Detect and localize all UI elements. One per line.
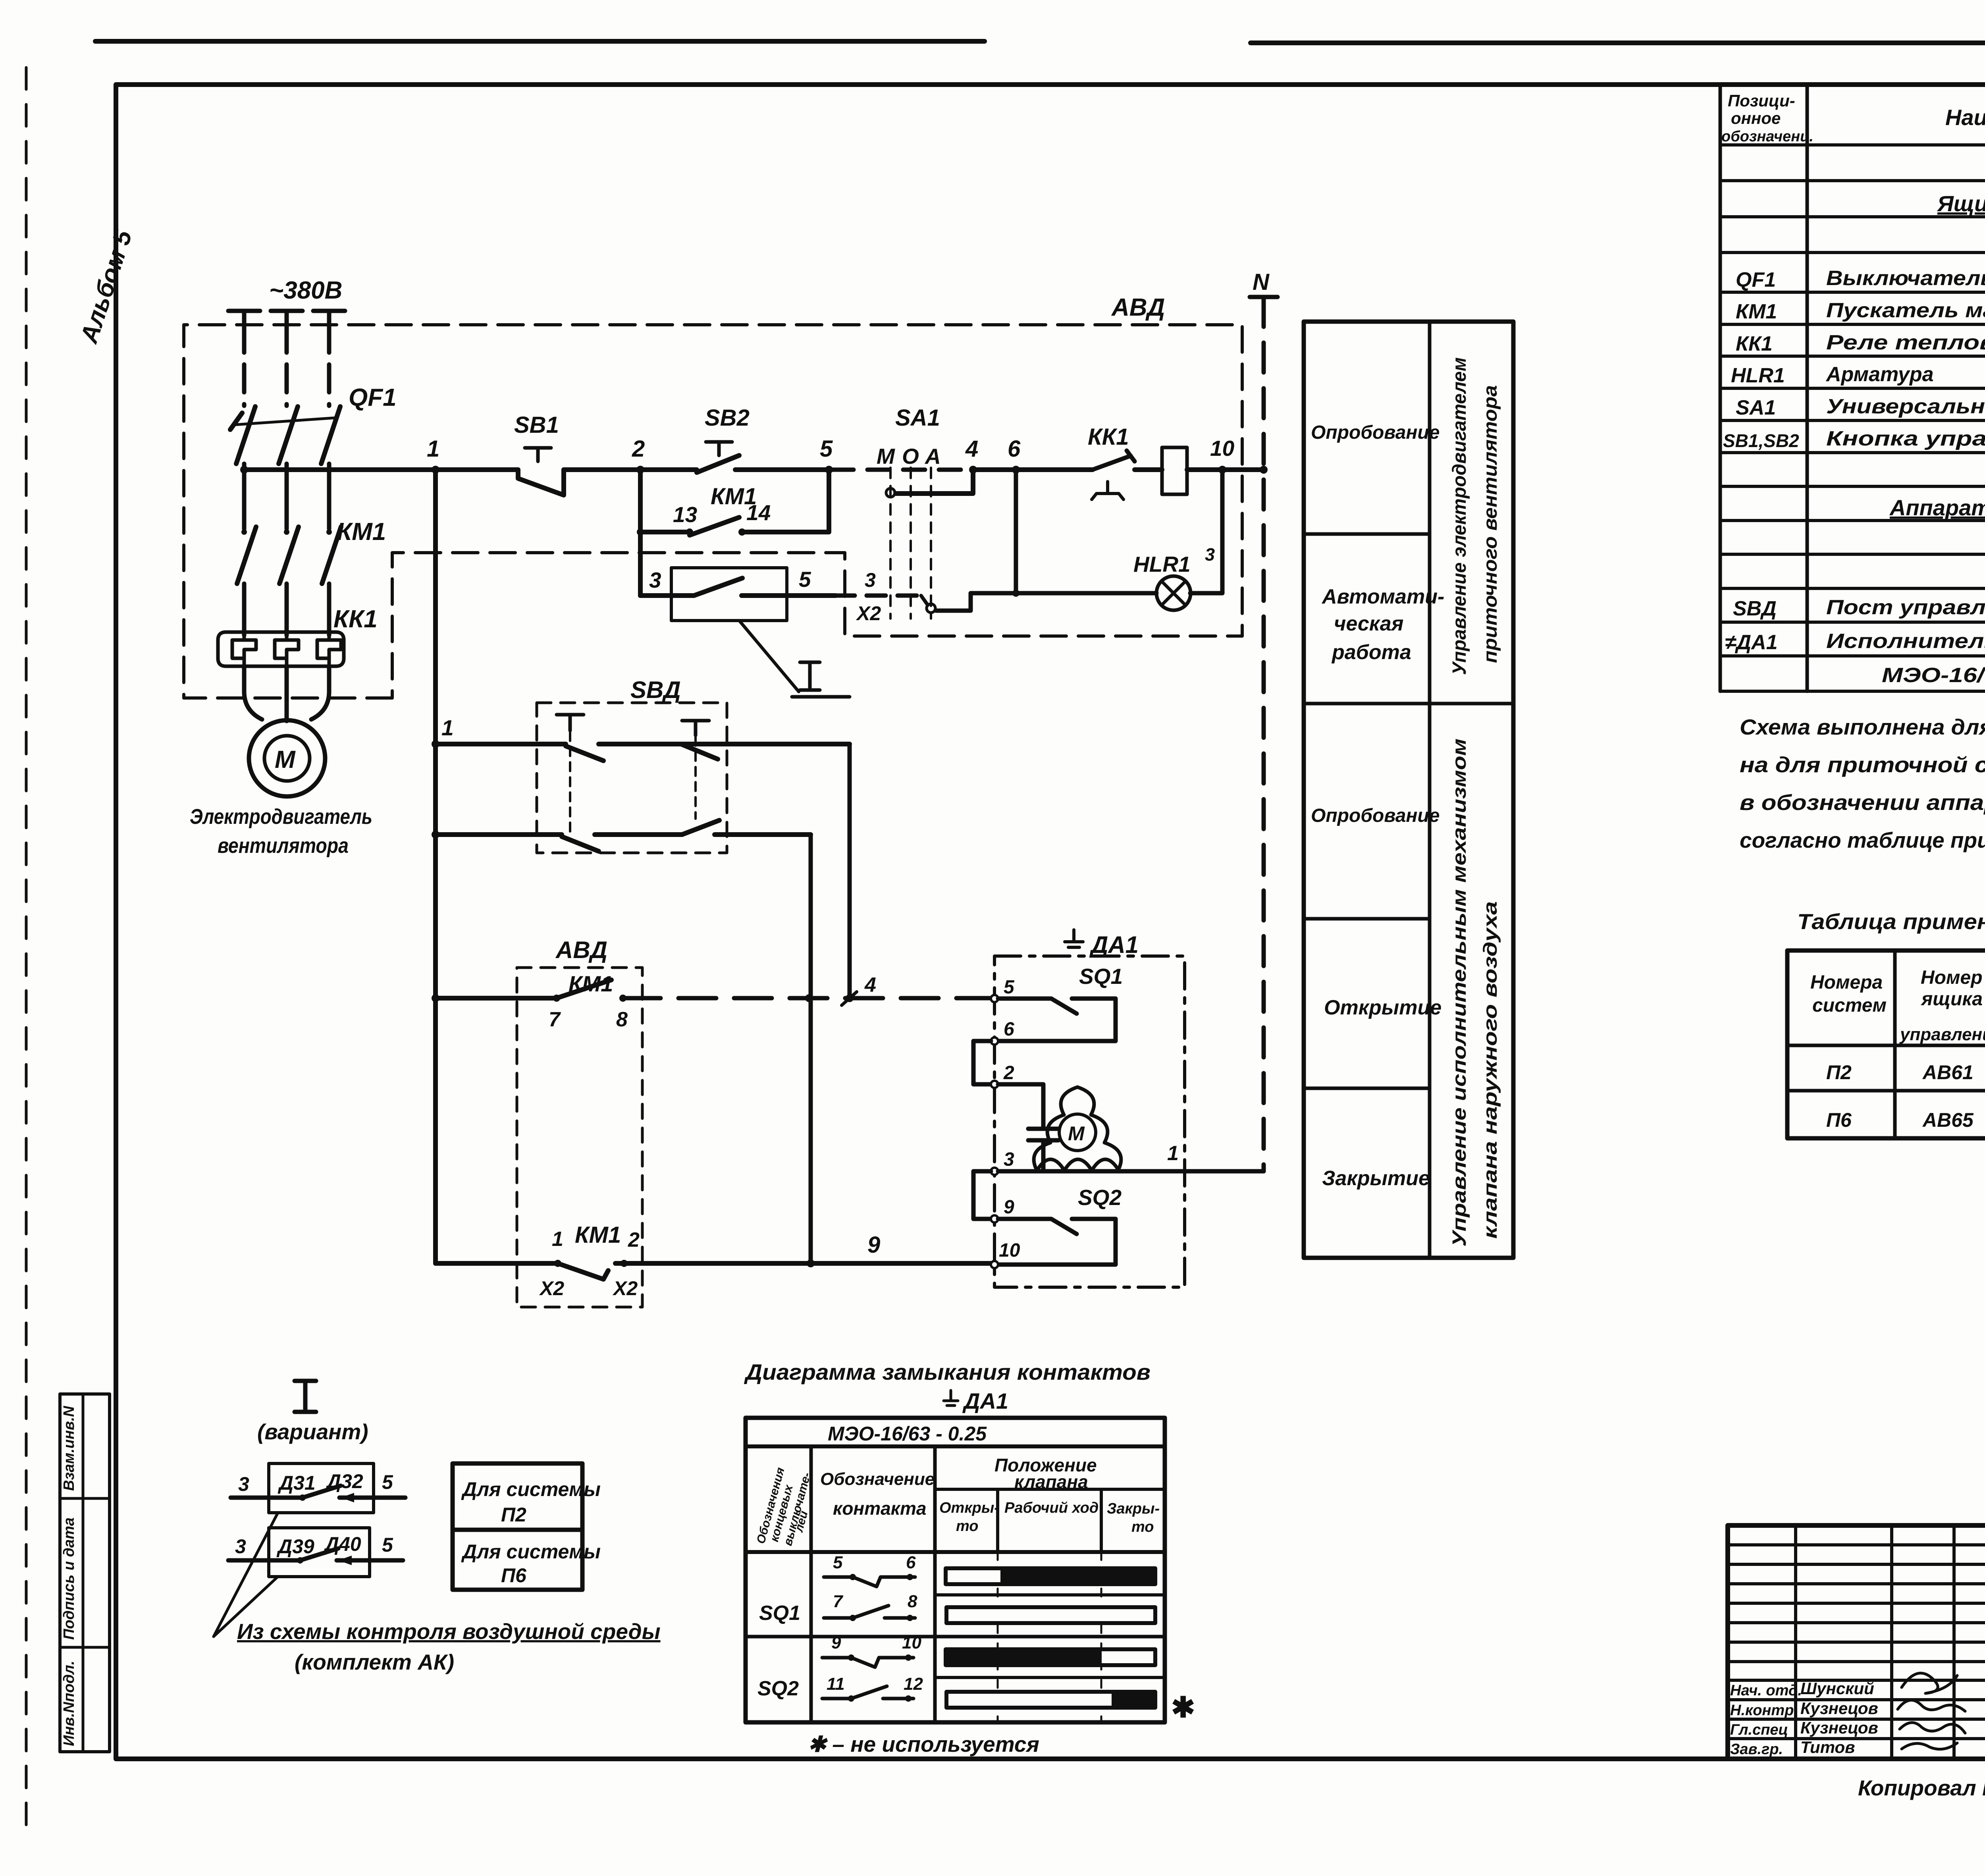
svg-text:Арматура: Арматура [1825,363,1934,386]
cabinet АВД boundary [184,325,1242,698]
svg-text:Х2: Х2 [539,1277,564,1300]
svg-text:(комплект АК): (комплект АК) [295,1650,454,1674]
svg-text:2: 2 [632,436,645,462]
svg-text:Для системы: Для системы [461,1541,601,1563]
svg-text:5: 5 [799,567,811,592]
svg-text:✱ – не используется: ✱ – не используется [808,1732,1039,1756]
svg-text:Гл.спец: Гл.спец [1730,1722,1788,1738]
svg-text:в обозначении аппаратов и п: в обозначении аппаратов и приборов в мар… [1740,790,1985,815]
svg-text:SВ1: SВ1 [514,412,559,438]
wire phase A [242,325,247,406]
svg-text:8: 8 [908,1592,917,1611]
svg-text:Диаграмма замыкания контакт: Диаграмма замыкания контактов [744,1359,1151,1384]
control tap junction [240,466,248,474]
svg-text:Кузнецов: Кузнецов [1800,1718,1878,1737]
sub-row separators [935,1593,1165,1596]
svg-text:согласно таблице применяемос: согласно таблице применяемости. [1740,828,1985,852]
node 4 [969,466,977,474]
wire control bus [244,467,518,472]
svg-text:1: 1 [552,1228,563,1251]
contactor KM1 main contacts [237,527,341,584]
parts table grid [1720,85,1985,691]
svg-text:то: то [956,1518,979,1535]
svg-text:9: 9 [867,1232,880,1258]
wire KK1 to coil [1135,467,1162,472]
svg-text:7: 7 [549,1008,561,1031]
svg-text:8: 8 [616,1008,628,1031]
svg-text:Аппаратура по месту: Аппаратура по месту [1889,495,1985,520]
svg-text:Взам.инв.N: Взам.инв.N [61,1406,77,1491]
svg-text:6: 6 [1008,436,1021,462]
svg-text:Подпись и дата: Подпись и дата [61,1517,77,1640]
svg-text:Открытие: Открытие [1324,996,1442,1019]
terminal 5 [991,995,998,1002]
callout line to variant I [739,621,799,692]
thermal relay KK1 heaters [218,632,344,666]
link 3 to 9 [973,1171,991,1219]
signature scribbles [1902,1673,1957,1693]
svg-text:5: 5 [1004,977,1015,998]
wire phase B [285,325,289,406]
signature grid [1796,1525,1985,1759]
svg-text:П6: П6 [1826,1109,1852,1131]
svg-text:2: 2 [1003,1062,1014,1084]
svg-text:Х2: Х2 [612,1277,638,1300]
svg-text:АВД: АВД [1111,294,1165,321]
svg-text:3: 3 [1004,1149,1014,1170]
svg-text:приточного вентилятора: приточного вентилятора [1480,385,1501,663]
svg-text:Откры-: Откры- [939,1500,999,1516]
svg-text:Ящик АВД: Ящик АВД [1937,191,1985,216]
svg-text:5: 5 [833,1553,843,1572]
svg-text:13: 13 [673,502,697,527]
control post SBД box [537,703,727,853]
svg-text:SВ2: SВ2 [705,405,750,431]
node 1 [432,466,439,474]
wire QF1 to KM1 pole B [285,464,289,529]
svg-text:✱: ✱ [1171,1692,1195,1724]
wire SB1 to node 2 [564,467,697,472]
wire 2 to motor/capacitor [998,1084,1043,1129]
svg-text:6: 6 [1004,1019,1014,1040]
svg-text:5: 5 [382,1534,393,1556]
svg-text:ческая: ческая [1334,612,1403,635]
svg-text:вентилятора: вентилятора [218,834,349,858]
circuit breaker QF1 [236,407,340,464]
svg-text:Пускатель магнитный: Пускатель магнитный [1826,299,1985,322]
svg-text:SQ1: SQ1 [759,1602,800,1625]
svg-text:АВ61: АВ61 [1922,1061,1973,1084]
svg-text:9: 9 [831,1633,841,1652]
svg-text:Шунский: Шунский [1800,1679,1874,1698]
svg-text:то: то [1131,1519,1154,1535]
svg-text:онное: онное [1731,109,1781,127]
svg-text:SВД: SВД [630,677,681,703]
SA1 contact М [886,488,895,497]
wire lamp to SA1-А step [936,593,1156,611]
svg-text:Зав.гр.: Зав.гр. [1730,1741,1783,1758]
svg-text:Обозначение: Обозначение [820,1469,935,1489]
capacitor [1028,1129,1058,1140]
lamp HLR1 [1156,576,1191,610]
node 10 [1218,466,1226,474]
wire bus node1 down [433,470,438,1263]
svg-text:Номера: Номера [1810,972,1883,993]
ground mark [1065,930,1083,947]
svg-text:ДА1: ДА1 [1089,931,1139,958]
SBД button 2 contact upper [681,744,718,759]
motor M fan [249,720,325,796]
svg-text:Копировал Марченко: Копировал Марченко [1858,1776,1985,1800]
svg-text:Кнопка управления: Кнопка управления [1826,427,1985,450]
svg-text:Автомати-: Автомати- [1321,585,1444,608]
wire SB2 to node 5 [759,467,832,472]
svg-text:SА1: SА1 [1736,396,1776,419]
wire 4 to ДА1 terminal 5 [623,996,991,1001]
contact KM1 13-14 self-holding branch [640,470,829,532]
svg-text:Для системы: Для системы [461,1478,601,1500]
cabinet АВД lower box [517,968,642,1307]
svg-text:клапана: клапана [1014,1471,1088,1492]
svg-text:Универсальный переключатель: Универсальный переключатель [1826,395,1985,418]
variant contact Д31-Д32 [269,1463,374,1513]
svg-text:Из схемы контроля воздушной: Из схемы контроля воздушной среды [237,1619,661,1644]
wire phase C [327,325,331,406]
wire coil to node 10 [1187,467,1264,472]
bar SQ1 5-6 [946,1568,1155,1584]
svg-text:М: М [877,444,895,469]
svg-text:работа: работа [1331,641,1411,664]
wire 3 through motor to N [998,1169,1264,1174]
svg-text:SА1: SА1 [895,405,940,431]
svg-text:SQ2: SQ2 [757,1677,799,1700]
svg-text:4: 4 [965,436,978,462]
svg-text:7: 7 [833,1592,844,1611]
wire QF1 to KM1 pole C [327,464,331,529]
svg-text:АВ65: АВ65 [1922,1109,1974,1131]
SA1 contact А [927,604,935,613]
coil KM1 [1162,447,1187,494]
terminal 2 [991,1081,998,1088]
svg-text:Титов: Титов [1800,1738,1855,1756]
svg-text:1: 1 [427,436,439,462]
svg-text:А: А [924,444,941,469]
svg-text:SВ1,SВ2: SВ1,SВ2 [1723,430,1799,451]
svg-text:Д39: Д39 [276,1535,314,1558]
svg-text:10: 10 [999,1240,1020,1261]
svg-text:Наименование: Наименование [1945,105,1985,130]
lamp branch wire [1190,470,1222,593]
svg-text:Исполнительный механизм: Исполнительный механизм [1826,630,1985,653]
wire 1 to SBД close button lower [432,831,439,839]
svg-text:3: 3 [865,569,876,591]
svg-text:клапана наружного воздуха: клапана наружного воздуха [1480,901,1501,1239]
wire SA1-М step to node 4 [896,470,973,494]
callout lines [214,1513,278,1637]
mode table frame [1304,322,1513,1258]
supply terminal L2 [271,311,303,325]
wire node5 through SA1 [832,468,975,472]
svg-text:П6: П6 [501,1564,527,1587]
svg-text:на для приточной системы П6: на для приточной системы П6 с указанием … [1740,752,1985,777]
wire N vertical [1262,297,1266,1171]
svg-text:КМ1: КМ1 [1736,300,1777,323]
svg-text:АВД: АВД [555,937,607,963]
wire QF1 to KM1 pole A [242,464,247,529]
junction node6 vertical at lamp wire [1014,470,1018,593]
svg-text:КК1: КК1 [1088,424,1129,450]
svg-text:П2: П2 [1826,1061,1852,1084]
svg-text:КМ1: КМ1 [575,1222,621,1248]
SBД button 1 contact upper [566,744,850,761]
svg-text:~380В: ~380В [269,277,342,304]
svg-text:МЭО-16/63-025, ~220В: МЭО-16/63-025, ~220В [1882,664,1985,687]
svg-text:5: 5 [382,1471,393,1493]
svg-text:1: 1 [1167,1142,1179,1165]
wire 4 row from bus [432,994,439,1002]
svg-text:14: 14 [746,500,771,525]
variant contact Д39-Д40 [269,1528,370,1577]
svg-text:HLR1: HLR1 [1731,364,1785,387]
svg-text:Закрытие: Закрытие [1322,1167,1430,1190]
wire KK1 to motor A [244,666,262,719]
svg-text:П2: П2 [501,1504,526,1526]
svg-text:5: 5 [820,436,833,462]
diagram columns [811,1446,935,1722]
left binding dashed line [25,67,28,1838]
bar SQ2 9-10 [946,1649,1155,1665]
svg-text:Пост управления ПКЕ222-2У2, 1/: Пост управления ПКЕ222-2У2, 1/2" [1826,596,1985,619]
SBД button2 contact lower [682,820,811,835]
svg-text:Позици-: Позици- [1728,91,1795,110]
svg-text:1: 1 [441,715,454,740]
svg-text:(вариант): (вариант) [257,1419,368,1444]
svg-text:управления: управления [1899,1025,1985,1044]
svg-text:контакта: контакта [833,1498,926,1519]
node 5 [825,466,833,474]
svg-text:систем: систем [1812,995,1887,1016]
terminal 3 [991,1168,998,1175]
supply terminal L1 [228,311,260,325]
terminal 6 [991,1037,998,1045]
svg-text:Выключатель автоматический: Выключатель автоматический [1826,267,1985,290]
svg-text:Нач. отд.: Нач. отд. [1730,1682,1802,1699]
svg-text:≠ДА1: ≠ДА1 [1725,631,1778,654]
svg-text:Реле тепловое: Реле тепловое [1826,331,1985,354]
box Для системы П2 [453,1463,582,1530]
svg-text:ящика: ящика [1920,989,1983,1010]
wire SBД upper out and down [848,744,852,998]
column guides dashed [998,1552,1101,1722]
wire SBД lower out and down [809,835,813,1263]
svg-text:3: 3 [649,568,661,592]
sheet top edge line [95,41,1985,43]
svg-text:Инв.Nподл.: Инв.Nподл. [61,1661,77,1746]
wire KM1 to KK1 pole C [327,584,331,635]
junction with N [1260,466,1268,474]
svg-text:3: 3 [1205,544,1215,565]
svg-text:ДА1: ДА1 [962,1388,1008,1413]
svg-text:3: 3 [235,1535,246,1558]
svg-text:Опробование: Опробование [1311,805,1440,826]
svg-text:10: 10 [902,1633,921,1652]
node 6 [1012,466,1020,474]
svg-text:HLR1: HLR1 [1133,552,1191,576]
bar SQ1 7-8 [946,1607,1155,1623]
svg-text:Электродвигатель: Электродвигатель [190,805,372,829]
svg-text:КМ1: КМ1 [337,518,386,546]
wire node6 to KK1 contact [1016,467,1093,472]
svg-text:КК1: КК1 [1736,332,1773,355]
wire node4 to node6 [973,467,1020,472]
svg-text:10: 10 [1210,436,1235,461]
svg-text:Х2: Х2 [856,602,881,625]
terminal 9 [991,1215,998,1222]
supply terminal L3 [313,311,345,325]
svg-text:QF1: QF1 [1736,268,1776,291]
bar SQ2 11-12 [946,1692,1155,1708]
svg-text:Рабочий ход: Рабочий ход [1004,1500,1098,1516]
wire node 2 down to node 3 [638,532,643,596]
svg-text:Опробование: Опробование [1311,422,1440,443]
variant mark I [295,1381,316,1412]
variant contact frame I [671,568,787,621]
svg-text:12: 12 [904,1674,923,1694]
svg-text:4: 4 [864,974,876,997]
svg-text:МЭО-16/63 - 0.25: МЭО-16/63 - 0.25 [828,1423,987,1445]
title block outline [1728,1525,1985,1759]
svg-text:КК1: КК1 [333,605,378,633]
terminal 10 [991,1261,998,1268]
SBД button1 contact lower [562,835,682,851]
node 2 [636,466,644,474]
svg-text:Н.контр: Н.контр [1730,1702,1794,1719]
wire KK1 to motor C [311,666,329,719]
diagram table frame [746,1418,1165,1722]
svg-text:SQ2: SQ2 [1078,1185,1122,1210]
left margin stamp strip [60,1394,110,1752]
svg-text:9: 9 [1004,1197,1014,1218]
svg-text:Таблица применяемости: Таблица применяемости [1797,909,1985,934]
svg-text:М: М [275,746,296,773]
svg-text:Управление исполнительным ме: Управление исполнительным механизмом [1449,738,1470,1247]
wire KM1 to KK1 pole B [285,584,289,635]
svg-text:QF1: QF1 [349,384,397,411]
svg-text:Д31: Д31 [278,1472,316,1494]
svg-text:SВД: SВД [1733,597,1777,620]
svg-text:N: N [1253,269,1270,295]
svg-text:Управление электродвигателем: Управление электродвигателем [1449,357,1470,675]
actuator motor М winding [1034,1087,1121,1170]
svg-text:SQ1: SQ1 [1079,964,1123,989]
wire KK1 to motor B [285,666,289,721]
wire 1 to SBД open button [432,740,439,748]
svg-text:обозначени.: обозначени. [1721,128,1813,145]
SBД button 2 actuator [682,721,709,735]
actuator ДА1 box [994,956,1185,1287]
svg-text:6: 6 [906,1553,916,1572]
link 6 to 2 [973,1041,991,1084]
svg-text:Кузнецов: Кузнецов [1800,1699,1878,1718]
svg-text:О: О [902,444,919,469]
svg-text:Альбом 5: Альбом 5 [75,226,138,347]
svg-text:М: М [1068,1122,1085,1145]
svg-text:3: 3 [238,1473,249,1495]
applicability table [1787,951,1985,1138]
svg-text:Закры-: Закры- [1107,1500,1160,1517]
svg-text:Номер: Номер [1921,967,1983,988]
svg-text:2: 2 [628,1228,640,1251]
svg-text:Схема выполнена для приточной: Схема выполнена для приточной системы П2… [1740,715,1985,739]
box Для системы П6 [453,1530,582,1590]
SBД button 1 actuator [557,715,584,731]
svg-text:11: 11 [827,1674,845,1694]
wire KM1 to KK1 pole A [242,584,247,635]
